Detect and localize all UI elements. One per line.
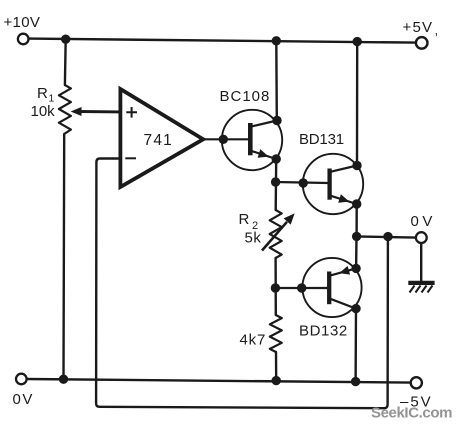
svg-text:0V: 0V bbox=[13, 391, 34, 408]
wire right vertical +5V to BD131 collector bbox=[356, 42, 359, 166]
wire BD131 emitter to 0V node bbox=[355, 204, 358, 236]
node BC108 emitter bbox=[272, 154, 281, 163]
op-amp minus input marker bbox=[125, 157, 136, 159]
ground bbox=[408, 283, 434, 293]
node BD132 base at circle edge bbox=[297, 283, 306, 292]
node BC108 collector bbox=[272, 116, 281, 125]
terminal +10V bbox=[18, 34, 29, 45]
BD132 emitter arrowhead bbox=[339, 266, 350, 275]
svg-text:0V: 0V bbox=[411, 213, 436, 230]
svg-text:,: , bbox=[435, 23, 439, 38]
op-amp U1 741 bbox=[120, 89, 203, 187]
wire BD132 collector to bottom rail bbox=[354, 309, 357, 382]
node BD131 collector bbox=[352, 161, 361, 170]
node bottom rail 4k7 junction bbox=[272, 376, 281, 385]
node 0V line at right vertical bbox=[352, 232, 361, 241]
wire left vertical R1 branch bbox=[64, 39, 66, 379]
svg-text:10k: 10k bbox=[31, 103, 56, 120]
node BD132 emitter bbox=[351, 264, 360, 273]
svg-text:BD132: BD132 bbox=[299, 323, 348, 340]
terminal +5V bbox=[416, 37, 428, 49]
svg-text:BC108: BC108 bbox=[220, 88, 271, 105]
wire top rail +10V to +5V bbox=[29, 39, 415, 43]
svg-text:SeekIC.com: SeekIC.com bbox=[371, 405, 452, 422]
node BD131 base at circle edge bbox=[299, 178, 308, 187]
wire R1 wiper to op-amp non-inverting input bbox=[80, 110, 121, 113]
BD131 emitter arrowhead bbox=[338, 194, 349, 203]
resistor R1 10k potentiometer bbox=[59, 85, 71, 134]
node bottom rail R1 junction bbox=[59, 375, 68, 384]
node BD132 collector bbox=[351, 304, 360, 313]
wire BD131 base bbox=[276, 182, 328, 183]
op-amp plus input marker bbox=[126, 107, 137, 118]
node top rail R1 junction bbox=[61, 35, 70, 44]
svg-text:BD131: BD131 bbox=[299, 131, 344, 148]
svg-text:R: R bbox=[37, 85, 48, 102]
node top rail BD131 collector branch bbox=[353, 37, 362, 46]
resistor 4k7 bbox=[270, 315, 282, 352]
wire op-amp output to BC108 base bbox=[203, 138, 248, 140]
wire middle vertical BC108 emitter to R2 to 4k7 chain bbox=[274, 159, 277, 381]
wire bottom rail 0V to -5V bbox=[27, 379, 411, 383]
resistor R2 5k variable bbox=[270, 210, 282, 258]
node BD132 base junction bbox=[271, 283, 280, 292]
svg-text:741: 741 bbox=[144, 132, 173, 149]
wire 0V node to BD132 emitter bbox=[355, 236, 358, 268]
node 0V line feedback junction bbox=[383, 232, 392, 241]
wire ground lead bbox=[420, 243, 422, 281]
node BD131 emitter bbox=[352, 199, 361, 208]
R2 arrowhead bbox=[284, 213, 295, 224]
wire BD132 base bbox=[275, 287, 327, 289]
node top rail BC108 collector branch bbox=[272, 36, 281, 45]
wire middle vertical BC108 collector segment bbox=[275, 41, 278, 121]
svg-text:+10V: +10V bbox=[4, 14, 41, 31]
svg-text:R: R bbox=[239, 211, 250, 228]
terminal -5V bbox=[411, 377, 422, 388]
terminal 0V output bbox=[416, 232, 427, 243]
svg-text:+5V: +5V bbox=[403, 19, 434, 36]
transistor Q1 BC108 bbox=[222, 110, 282, 170]
wire feedback loop from op-amp inverting input to 0V node bbox=[96, 159, 388, 409]
node BC108 base at circle edge bbox=[219, 135, 228, 144]
R2 adjustment arrow bbox=[262, 222, 287, 251]
wire 0V output line bbox=[357, 236, 416, 237]
transistor Q2 BD131 bbox=[303, 154, 363, 214]
svg-text:4k7: 4k7 bbox=[240, 332, 267, 349]
svg-text:5k: 5k bbox=[245, 230, 262, 247]
node bottom rail BD132 junction bbox=[351, 377, 360, 386]
transistor Q3 BD132 bbox=[302, 258, 361, 317]
BC108 emitter arrowhead bbox=[258, 149, 269, 158]
node BD131 base junction bbox=[271, 177, 280, 186]
terminal 0V left bbox=[16, 374, 27, 385]
R1 wiper arrowhead bbox=[71, 107, 82, 116]
